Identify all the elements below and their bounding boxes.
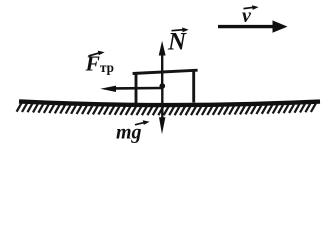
- velocity arrow: [218, 25, 276, 28]
- svg-text:N: N: [167, 29, 187, 56]
- wire friction line inside block: [114, 87, 162, 90]
- ground hatching: [17, 103, 316, 115]
- ground surface line: [19, 101, 320, 105]
- svg-text:F: F: [85, 52, 100, 76]
- friction force arrowhead: [100, 86, 116, 92]
- block: [135, 73, 138, 104]
- label mg vector bar: [135, 120, 150, 125]
- weight mg arrow: [161, 88, 163, 122]
- svg-text:mg: mg: [116, 122, 142, 144]
- normal force N arrow: [161, 53, 163, 88]
- label v vector bar: [244, 5, 259, 10]
- svg-text:v: v: [242, 5, 252, 27]
- label F vector bar: [89, 51, 105, 56]
- label N vector bar: [172, 27, 189, 32]
- node center dot: [160, 83, 166, 89]
- svg-text:тр: тр: [100, 60, 114, 75]
